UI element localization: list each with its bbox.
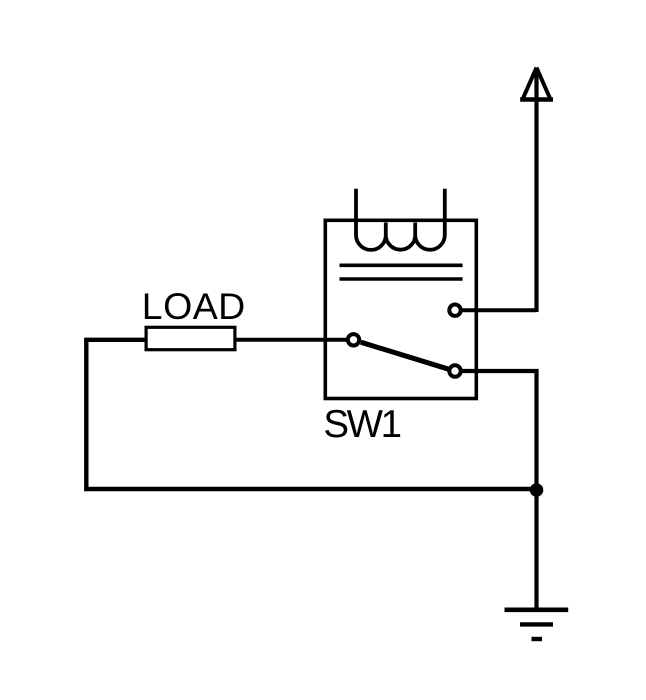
wire: resistor to relay common pin bbox=[237, 338, 348, 342]
pin: lower right contact bbox=[449, 365, 460, 376]
junction node bbox=[530, 483, 544, 497]
ground symbol bbox=[505, 610, 569, 639]
svg-text:LOAD: LOAD bbox=[142, 285, 246, 327]
relay core line (lower) bbox=[340, 277, 463, 281]
wire: junction down to ground bbox=[534, 490, 538, 610]
pin: upper right contact bbox=[449, 305, 460, 316]
wire: upper-right pin to power rail bbox=[461, 308, 537, 312]
wire: lower-right pin right then down to junction bbox=[461, 371, 537, 489]
switch arm bbox=[361, 342, 449, 369]
power arrow (off-page connector, up) bbox=[520, 68, 553, 100]
pin: common (left) bbox=[348, 334, 359, 345]
relay box SW1 bbox=[325, 220, 476, 398]
wire: power arrow down to relay pin wire bbox=[534, 69, 538, 313]
relay core line (upper) bbox=[340, 263, 463, 267]
svg-text:SW1: SW1 bbox=[323, 403, 400, 446]
relay coil bbox=[356, 189, 445, 250]
wire: left loop (resistor left, down, along bottom to junction) bbox=[86, 340, 536, 489]
resistor LOAD body bbox=[146, 327, 235, 349]
